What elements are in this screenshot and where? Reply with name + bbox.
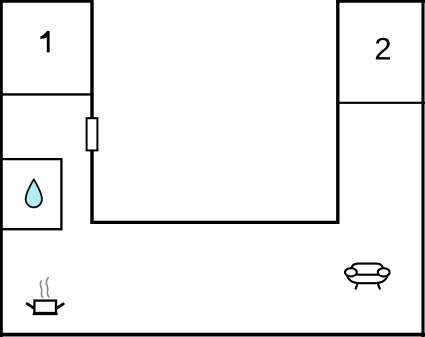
sofa right leg [378, 283, 381, 290]
sofa seat line [354, 274, 382, 276]
cooking pot right handle [56, 304, 63, 309]
outer wall bottom [0, 333, 425, 337]
sofa seat/base [346, 272, 388, 284]
wire room 1 divider [0, 93, 94, 95]
cooking pot left handle [27, 304, 34, 309]
wire bottom wall of center area [90, 221, 339, 224]
wire room 2 divider [336, 102, 425, 104]
wire right interior wall [336, 0, 339, 223]
cooking pot steam right [46, 278, 48, 297]
cooking pot steam left [40, 281, 43, 298]
outer wall right [421, 0, 424, 337]
wire left interior wall [90, 0, 93, 223]
cooking pot base [33, 313, 58, 315]
outer wall top-right segment [336, 0, 425, 3]
door on left interior wall [87, 118, 98, 150]
sofa left armrest [345, 268, 357, 276]
sofa left leg [355, 283, 358, 290]
bathroom box (open on left side toward outer wall) [0, 159, 61, 229]
sofa backrest [351, 264, 383, 273]
outer wall top-left segment [0, 0, 94, 3]
outer wall left [0, 0, 3, 337]
label room 1 [40, 31, 49, 52]
svg-text:2: 2 [374, 32, 391, 67]
cooking pot body [34, 301, 56, 313]
water drop icon [26, 179, 42, 207]
sofa right armrest [378, 268, 390, 276]
